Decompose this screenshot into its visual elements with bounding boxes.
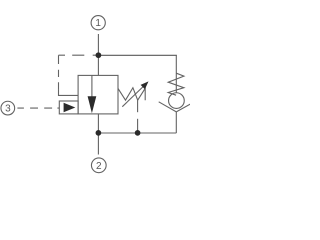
pilot box: piston envelope on left of main box <box>59 101 78 114</box>
check valve CV1: seat V <box>159 102 195 112</box>
wire: pilot line (dashed) from port-1 node going left <box>59 54 99 56</box>
wire: internal flow path inside main box <box>91 75 93 97</box>
valve V1: main relief box envelope <box>78 75 118 114</box>
wire: top bus from node at port 1 to check valve corner <box>98 54 176 56</box>
pilot piston: filled right-pointing triangle <box>64 103 76 113</box>
node C: junction dot drain / bottom bus <box>135 130 141 136</box>
svg-text:3: 3 <box>5 104 11 115</box>
wire: dashed spring-chamber drain segment lower <box>137 119 139 133</box>
spring S1: adjustable relief spring zigzag right of main box <box>118 88 145 101</box>
svg-text:1: 1 <box>95 18 101 29</box>
arrow: adjustment arrowhead (up-right) <box>141 81 149 89</box>
wire: dashed spring-chamber drain segment upper <box>137 100 139 112</box>
port 1 symbol circle <box>91 16 105 30</box>
arrow: main flow arrowhead inside box (down) <box>88 96 97 113</box>
wire: check valve riser from bottom bus to seat <box>175 112 177 133</box>
wire: port 1 riser from circle 1 to main valve box top <box>97 34 99 75</box>
node B: junction dot bottom bus / port 2 <box>96 130 102 136</box>
svg-text:2: 2 <box>96 161 102 172</box>
wire: port 3 vent line (dashed) to pilot box <box>17 107 59 109</box>
wire: check valve branch riser down to coil spring <box>175 55 177 93</box>
wire: pilot line (dashed) going down at left <box>58 55 60 89</box>
arrow: adjustment arrow shaft across spring <box>122 86 144 107</box>
check valve CV1: ball <box>169 93 185 109</box>
port 3 symbol circle <box>1 101 15 115</box>
node A: junction dot port1/top bus <box>96 52 102 58</box>
wire: pilot line solid elbow into main box left side <box>59 89 79 95</box>
wire: bottom bus horizontal <box>98 132 176 134</box>
wire: drop from main box bottom through node B to port 2 <box>97 114 99 155</box>
check valve CV1: spring coil above ball <box>168 73 184 95</box>
port 2 symbol circle <box>91 158 106 173</box>
